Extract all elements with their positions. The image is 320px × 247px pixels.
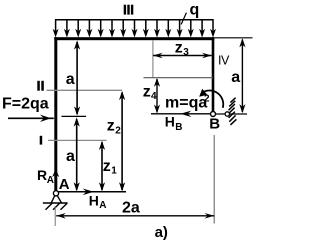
svg-text:IV: IV	[218, 53, 230, 67]
extension line below B (right end of 2a)	[213, 135, 215, 224]
svg-text:H: H	[165, 114, 175, 130]
moment m arc	[203, 90, 224, 107]
svg-text:A: A	[99, 200, 106, 211]
distributed load top line	[55, 19, 214, 21]
svg-text:a: a	[231, 69, 240, 86]
H_B line (B to left, with z4 bottom reference)	[151, 113, 211, 115]
svg-text:3: 3	[183, 47, 189, 58]
label I	[40, 136, 43, 145]
label III	[124, 5, 134, 15]
svg-text:z: z	[143, 83, 151, 100]
label II	[37, 81, 44, 91]
svg-text:A: A	[59, 176, 70, 193]
support A hatching	[46, 203, 53, 210]
tick at F level	[62, 115, 87, 117]
right a dim: line	[241, 40, 243, 113]
pin circle B	[211, 112, 216, 117]
dim z1: line	[101, 142, 103, 190]
support A triangle legs	[51, 195, 55, 203]
svg-text:B: B	[175, 122, 182, 133]
q leader line	[181, 13, 186, 25]
wall hatching at B	[228, 98, 236, 125]
svg-text:H: H	[89, 192, 99, 208]
svg-text:q: q	[190, 2, 200, 19]
reaction R_A arrowhead (on column)	[52, 169, 59, 178]
svg-text:F=2qa: F=2qa	[2, 95, 49, 112]
dim z3: line	[153, 55, 212, 57]
z3 extension line	[152, 41, 154, 79]
roller circle B	[225, 112, 229, 116]
moment arrowhead	[199, 89, 207, 97]
load arrows (15)	[53, 20, 59, 38]
svg-text:2: 2	[115, 126, 121, 137]
pin circle A	[53, 191, 58, 196]
extension line below A	[54, 206, 56, 226]
reaction H_B arrowhead	[180, 111, 191, 117]
svg-text:4: 4	[151, 91, 157, 102]
svg-text:m=qa: m=qa	[165, 95, 207, 112]
dim a lower: line	[76, 119, 78, 190]
left column	[54, 37, 57, 191]
svg-text:z: z	[103, 158, 111, 175]
force F arrow	[8, 117, 54, 119]
svg-text:B: B	[209, 116, 220, 133]
dim 2a: line	[56, 215, 214, 217]
svg-text:2a: 2a	[122, 200, 140, 217]
svg-text:A: A	[47, 175, 54, 186]
section line I	[48, 139, 107, 141]
svg-text:z: z	[175, 39, 183, 56]
reaction H_A arrowhead	[83, 189, 94, 196]
z4 top extension line	[144, 77, 214, 79]
svg-text:2: 2	[204, 94, 210, 105]
svg-text:a: a	[66, 148, 75, 165]
dim z4: line	[156, 79, 158, 112]
svg-text:z: z	[107, 118, 115, 135]
dim z2: line	[121, 93, 123, 191]
roller link line	[216, 113, 248, 115]
section line II	[47, 89, 122, 91]
svg-text:a: a	[66, 71, 75, 88]
ground line at A	[59, 191, 127, 193]
right column	[212, 37, 215, 111]
support A ground line	[43, 202, 68, 204]
svg-text:1: 1	[111, 165, 117, 176]
svg-text:a): a)	[155, 224, 168, 241]
dim a upper: line	[76, 42, 78, 114]
svg-text:R: R	[37, 167, 47, 183]
right a dim: top extension line	[215, 37, 253, 39]
top beam	[54, 37, 214, 40]
